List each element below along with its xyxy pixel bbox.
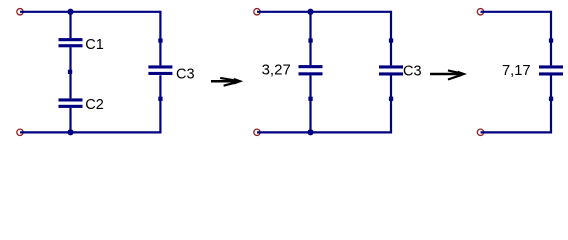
label 3,27	[262, 61, 291, 78]
svg-text:3,27: 3,27	[262, 61, 291, 78]
label C1	[85, 37, 104, 53]
pin square bottom of C3	[158, 97, 162, 101]
pin square bottom of 3,27 capacitor	[308, 97, 312, 101]
pin square top of 3,27 capacitor	[308, 38, 312, 42]
svg-text:C3: C3	[403, 63, 422, 79]
arrow 1	[211, 78, 243, 86]
wire C3 branch circuit 1	[159, 11, 161, 134]
wire top rail circuit 3	[481, 11, 552, 13]
pin square top of C3	[158, 38, 162, 42]
svg-text:C1: C1	[85, 37, 104, 53]
wire top rail circuit 1	[20, 11, 160, 13]
label C3 circuit 1	[176, 66, 195, 82]
port P2 bottom-left	[17, 129, 23, 135]
capacitor 3,27	[299, 65, 323, 75]
wire 3,27 capacitor branch	[309, 12, 311, 133]
wire bottom rail circuit 3	[481, 131, 552, 133]
wire C1-C2 branch vertical	[69, 12, 71, 133]
port P3 top-left circuit 2	[254, 9, 260, 15]
label C2	[85, 97, 104, 113]
arrow 2	[430, 70, 467, 79]
wire 7,17 capacitor branch	[550, 11, 552, 134]
junction dot bottom of C2 branch	[67, 129, 73, 135]
svg-text:7,17: 7,17	[502, 63, 531, 79]
capacitor C2	[59, 98, 83, 108]
label 7,17	[502, 63, 531, 79]
label C3 circuit 2	[403, 63, 422, 79]
port P5 top-left circuit 3	[477, 9, 483, 15]
svg-text:C3: C3	[176, 66, 195, 82]
pin square top of 7,17 capacitor	[549, 38, 553, 42]
junction dot top of C1 branch	[67, 9, 73, 15]
wire bottom rail circuit 2	[257, 131, 391, 133]
wire C3 branch circuit 2	[390, 11, 392, 134]
wire top rail circuit 2	[257, 11, 391, 13]
junction dot top of 3,27 branch	[307, 9, 313, 15]
port P4 bottom-left circuit 2	[254, 129, 260, 135]
port P1 top-left	[17, 9, 23, 15]
pin square bottom of C3 circuit 2	[389, 97, 393, 101]
pin junction square between C1 and C2	[68, 70, 72, 74]
capacitor C3 circuit 1	[148, 65, 172, 75]
pin square top of C3 circuit 2	[389, 38, 393, 42]
pin square bottom of 7,17 capacitor	[549, 97, 553, 101]
junction dot bottom of 3,27 branch	[307, 129, 313, 135]
port P6 bottom-left circuit 3	[477, 129, 483, 135]
capacitor 7,17	[539, 65, 563, 75]
svg-text:C2: C2	[85, 97, 104, 113]
capacitor C3 circuit 2	[379, 65, 403, 75]
capacitor C1	[59, 38, 83, 47]
wire bottom rail circuit 1	[20, 131, 160, 133]
